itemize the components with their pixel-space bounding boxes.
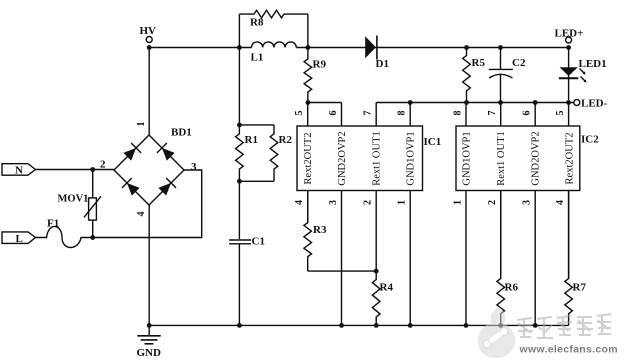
node R8/L1 left <box>237 45 242 50</box>
node N/MOV1 junction <box>90 167 95 172</box>
svg-text:F1: F1 <box>47 218 59 230</box>
svg-text:R1: R1 <box>245 134 258 146</box>
resistor R4 <box>372 271 393 325</box>
bridge diode D-a (node2 to node1) <box>122 143 141 162</box>
svg-text:Rext1 OUT1: Rext1 OUT1 <box>496 131 507 186</box>
bridge diode D-c (node4 to node2) <box>122 178 141 197</box>
node rail pin3 IC2 <box>533 323 538 328</box>
svg-text:1: 1 <box>397 200 408 205</box>
svg-text:2: 2 <box>363 200 374 205</box>
node rail C1 <box>237 323 242 328</box>
resistor R9 <box>304 48 326 103</box>
svg-text:GND1OVP1: GND1OVP1 <box>406 131 417 185</box>
svg-text:GND: GND <box>137 347 162 359</box>
svg-text:R4: R4 <box>380 282 394 294</box>
svg-text:3: 3 <box>191 161 197 173</box>
node R1 top <box>237 123 242 128</box>
svg-text:IC1: IC1 <box>424 136 442 148</box>
svg-text:Rext2OUT2: Rext2OUT2 <box>303 133 314 185</box>
node L/MOV1 junction <box>90 235 95 240</box>
terminal N <box>2 164 36 177</box>
IC1 <box>294 103 441 326</box>
wire R3 bottom to pin2 column <box>308 270 377 272</box>
svg-text:GND2OVP2: GND2OVP2 <box>337 131 348 185</box>
bridge diode D-b (node3 to node1) <box>157 143 176 162</box>
svg-text:IC2: IC2 <box>581 134 599 146</box>
terminal L <box>2 232 36 245</box>
node rail R6 <box>498 323 503 328</box>
svg-text:R3: R3 <box>313 224 327 236</box>
wire L to bridge node 3 (around bottom of bridge) <box>93 170 202 238</box>
node pin7 IC2/C2 <box>498 100 503 105</box>
bridge diode D-d (node4 to node3) <box>157 178 176 197</box>
resistor R8 <box>239 10 308 47</box>
svg-text:5: 5 <box>555 111 566 116</box>
diode D1 <box>365 36 389 71</box>
LED+ terminal <box>555 28 584 44</box>
svg-text:7: 7 <box>363 111 374 116</box>
svg-text:R8: R8 <box>250 17 264 29</box>
node R8/L1 right <box>306 45 311 50</box>
node rail pin3 IC1 <box>339 323 344 328</box>
ground GND <box>137 325 162 359</box>
svg-text:D1: D1 <box>376 58 389 70</box>
varistor MOV1 <box>58 170 102 238</box>
svg-text:C2: C2 <box>512 57 526 69</box>
svg-text:GND1OVP1: GND1OVP1 <box>462 131 473 185</box>
center bus wire (top node to R1 block to C1 to rail) <box>238 48 240 326</box>
capacitor C2 <box>489 48 526 103</box>
svg-text:8: 8 <box>397 111 408 116</box>
svg-text:6: 6 <box>522 111 533 116</box>
LED LED1 <box>559 48 607 103</box>
node LED top corner <box>566 45 571 50</box>
node pin8 IC2/R5 <box>464 100 469 105</box>
svg-text:5: 5 <box>294 111 305 116</box>
node R5 top <box>464 45 469 50</box>
svg-text:4: 4 <box>136 212 147 217</box>
svg-text:2: 2 <box>100 159 106 171</box>
resistor R6 <box>497 191 519 326</box>
svg-text:C1: C1 <box>252 236 265 248</box>
watermark <box>478 307 618 358</box>
svg-text:6: 6 <box>328 111 339 116</box>
svg-text:R6: R6 <box>505 282 519 294</box>
svg-text:LED+: LED+ <box>555 28 584 40</box>
node R3/R4 junction <box>374 269 379 274</box>
fuse F1 <box>36 218 93 248</box>
node R1 bottom <box>237 179 242 184</box>
node rail pin1 IC2 <box>464 323 469 328</box>
svg-text:1: 1 <box>453 200 464 205</box>
HV terminal <box>140 25 157 50</box>
resistor R7 <box>565 191 587 326</box>
svg-text:MOV1: MOV1 <box>58 194 89 205</box>
top HV wire <box>149 47 568 49</box>
inductor L1 <box>251 42 297 64</box>
svg-text:HV: HV <box>140 25 157 37</box>
node rail GND <box>147 323 152 328</box>
resistor R2 <box>239 125 292 181</box>
svg-text:L1: L1 <box>251 52 264 64</box>
svg-text:1: 1 <box>136 122 147 127</box>
resistor R5 <box>463 48 486 103</box>
svg-text:GND2OVP2: GND2OVP2 <box>531 131 542 185</box>
wire bridge node 4 to ground rail <box>148 205 150 325</box>
svg-text:R9: R9 <box>313 59 327 71</box>
wire bridge node 1 to HV node <box>148 48 150 136</box>
resistor R1 <box>236 125 258 181</box>
bridge rectifier BD1 <box>100 122 197 217</box>
LED- terminal <box>566 98 607 110</box>
svg-text:R7: R7 <box>573 282 587 294</box>
wire IC1 pins 5-6 bracket <box>308 102 342 104</box>
wire IC pins rail (pin7 IC1 to LED-) <box>376 102 574 104</box>
wire N terminal to bridge node 2 <box>36 169 115 171</box>
node rail pin1 IC1 <box>408 323 413 328</box>
svg-text:N: N <box>15 165 23 177</box>
svg-text:R2: R2 <box>279 134 293 146</box>
svg-text:4: 4 <box>294 200 305 205</box>
svg-text:7: 7 <box>487 111 498 116</box>
svg-text:3: 3 <box>522 200 533 205</box>
node C2 top <box>498 45 503 50</box>
svg-text:3: 3 <box>328 200 339 205</box>
svg-text:LED-: LED- <box>581 98 608 110</box>
IC2 <box>453 103 600 326</box>
svg-text:8: 8 <box>453 111 464 116</box>
node R9/pin5 <box>306 100 311 105</box>
svg-text:BD1: BD1 <box>171 127 192 139</box>
node pin8 IC1 <box>408 100 413 105</box>
svg-text:www.elecfans.com: www.elecfans.com <box>519 344 618 356</box>
svg-text:L: L <box>16 233 23 245</box>
ground rail wire <box>149 324 568 326</box>
svg-text:R5: R5 <box>472 57 486 69</box>
capacitor C1 <box>229 236 265 248</box>
svg-text:LED1: LED1 <box>579 58 607 70</box>
node pin6 IC2 <box>533 100 538 105</box>
svg-text:Rext2OUT2: Rext2OUT2 <box>565 133 576 185</box>
svg-text:Rext1 OUT1: Rext1 OUT1 <box>372 131 383 186</box>
svg-text:2: 2 <box>487 200 498 205</box>
resistor R3 <box>304 191 327 272</box>
svg-text:4: 4 <box>555 200 566 205</box>
node rail R4 <box>374 323 379 328</box>
